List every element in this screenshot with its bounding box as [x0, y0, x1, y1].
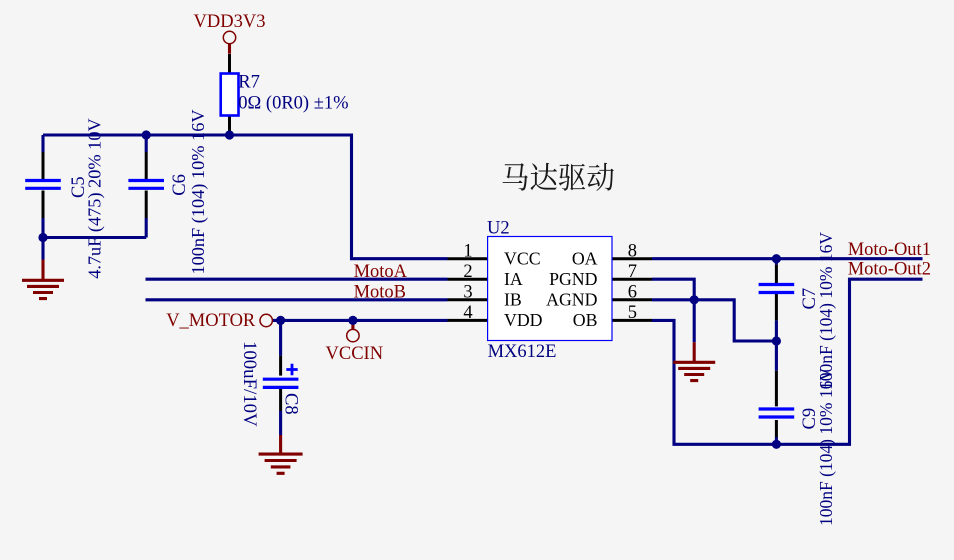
svg-text:OB: OB [573, 310, 598, 330]
svg-text:VCC: VCC [504, 248, 541, 268]
svg-text:6: 6 [628, 282, 637, 302]
svg-text:1: 1 [463, 241, 472, 261]
svg-text:100nF (104) 10% 16V: 100nF (104) 10% 16V [816, 368, 836, 526]
svg-text:MotoB: MotoB [354, 282, 406, 302]
svg-text:3: 3 [463, 282, 472, 302]
svg-text:AGND: AGND [546, 289, 598, 309]
svg-text:VDD: VDD [504, 310, 543, 330]
svg-text:4.7uF (475) 20% 10V: 4.7uF (475) 20% 10V [85, 118, 106, 278]
svg-text:100nF (104) 10% 16V: 100nF (104) 10% 16V [188, 109, 209, 274]
svg-text:0Ω (0R0) ±1%: 0Ω (0R0) ±1% [238, 94, 348, 114]
svg-text:PGND: PGND [549, 269, 598, 289]
svg-text:7: 7 [628, 262, 637, 282]
svg-text:C8: C8 [281, 393, 301, 415]
svg-text:U2: U2 [487, 219, 510, 239]
svg-text:VDD3V3: VDD3V3 [194, 12, 266, 32]
svg-text:4: 4 [463, 303, 472, 323]
svg-text:IA: IA [504, 269, 523, 289]
svg-text:OA: OA [572, 248, 598, 268]
svg-text:R7: R7 [238, 73, 260, 93]
svg-text:100uF/10V: 100uF/10V [239, 341, 260, 427]
svg-text:2: 2 [463, 262, 472, 282]
svg-text:5: 5 [628, 303, 637, 323]
svg-text:MX612E: MX612E [488, 342, 557, 362]
svg-text:8: 8 [628, 241, 637, 261]
svg-text:IB: IB [504, 289, 522, 309]
svg-text:VCCIN: VCCIN [326, 344, 384, 364]
svg-text:Moto-Out1: Moto-Out1 [848, 240, 931, 260]
svg-text:100nF (104) 10% 16V: 100nF (104) 10% 16V [816, 232, 836, 390]
svg-text:MotoA: MotoA [354, 262, 408, 282]
svg-text:V_MOTOR: V_MOTOR [166, 311, 256, 331]
svg-text:Moto-Out2: Moto-Out2 [848, 259, 931, 279]
svg-text:C6: C6 [170, 174, 190, 196]
